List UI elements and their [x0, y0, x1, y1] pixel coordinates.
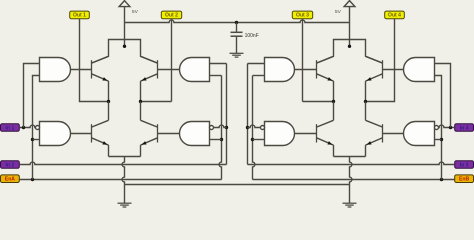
junction EnB outer branch [440, 178, 443, 181]
svg-text:5V: 5V [132, 9, 139, 15]
svg-text:Out 1: Out 1 [73, 13, 86, 19]
junction node Out3 [332, 100, 335, 103]
wire Out 1 to node [80, 19, 109, 102]
transistor Q8 (right bridge, low side B) [366, 120, 383, 145]
tag In 4 [455, 124, 474, 132]
wire right bridge ground drop [350, 157, 352, 204]
wire EnA to U2 lower input [33, 139, 40, 141]
wire Q3 emitter to emitter bus [108, 145, 110, 156]
tag Out 1 [70, 11, 90, 19]
transistor Q3 (left bridge, low side A) [92, 120, 109, 145]
wire 5V lead down to collector bar junction (right) [349, 7, 351, 47]
transistor Q2 (left bridge, high side B) [141, 56, 158, 81]
svg-text:Out 2: Out 2 [165, 13, 178, 19]
AND gate U4 (/In2*EnA, inverted input) [180, 122, 214, 146]
label 100nF [245, 33, 259, 39]
wire U6 output to Q8 base [383, 133, 404, 135]
wire left bridge ground drop [122, 157, 124, 204]
wire Out 3 vertical [302, 19, 304, 102]
power supply arrow +5V (right) [344, 1, 355, 7]
transistor Q1 (left bridge, high side A) [92, 56, 109, 81]
wire In 4 to U6 inverted input [439, 125, 455, 127]
junction In1 branch [22, 126, 25, 129]
wire Q4 collector to node Out2 [140, 102, 142, 121]
wire Q3 collector to node Out1 [108, 102, 110, 121]
AND gate U2 (/In1*EnA, inverted input) [36, 122, 71, 146]
AND gate U1 (In1*EnA) [40, 58, 71, 82]
AND gate U5 (In4*EnB) [404, 58, 435, 82]
svg-text:100nF: 100nF [245, 33, 259, 39]
wire EnA to U4 lower input [210, 139, 222, 141]
tag Out 3 [292, 11, 312, 19]
junction EnA to U4 input [220, 138, 223, 141]
svg-text:5V: 5V [335, 9, 342, 15]
tag En A [1, 175, 20, 183]
wire U2 output to Q3 base [71, 133, 92, 135]
junction In2 to U4 inverted input [225, 126, 228, 129]
AND gate U3 (In2*EnA) [180, 58, 210, 82]
wire In 2 line to inner gates [19, 64, 226, 165]
wire capacitor bottom lead [236, 37, 238, 53]
wire Q2 emitter to node [140, 81, 142, 101]
junction EnB to U8 input [251, 138, 254, 141]
wire U8 bubble to In3 vertical [248, 125, 261, 127]
junction EnA to U2 input [31, 138, 34, 141]
wire Q8 emitter to emitter bus [365, 145, 367, 156]
svg-text:In 2: In 2 [6, 162, 15, 168]
wire V+ rail [125, 20, 350, 22]
tag In 1 [1, 124, 20, 132]
wire Out 4 to node [366, 19, 395, 102]
wire Q5 emitter to node [333, 81, 335, 101]
tag Out 2 [161, 11, 181, 19]
capacitor C1 100nF [231, 32, 243, 36]
wire Q1 emitter to node [108, 81, 110, 101]
wire Out 2 to node [141, 101, 172, 103]
wire Q7 collector to node Out3 [333, 102, 335, 121]
ground (capacitor) [230, 53, 244, 57]
wire U7 output to Q5 base [295, 69, 317, 71]
wire U1 output to Q1 base [71, 69, 92, 71]
wire Q8 collector to node Out4 [365, 102, 367, 121]
wire Q7 emitter to emitter bus [333, 145, 335, 156]
wire Q4 emitter to emitter bus [140, 145, 142, 156]
junction EnB to U6 input [440, 138, 443, 141]
wire In 1 to U2 inverted input [19, 125, 35, 127]
svg-text:EnA: EnA [5, 177, 16, 183]
wire EnB to U8 lower input [253, 139, 265, 141]
transistor Q6 (right bridge, high side B) [366, 56, 383, 81]
power supply arrow +5V (left) [119, 1, 130, 7]
wire In 1 branch up to U1 input [24, 64, 40, 128]
svg-text:In 3: In 3 [460, 162, 469, 168]
label 5V (left) [132, 9, 139, 15]
tag In 3 [455, 161, 474, 169]
wire EnA branch to U1/U2 inputs [33, 76, 40, 180]
wire emitter bus (right) [334, 156, 366, 158]
wire capacitor top lead [236, 23, 238, 32]
wire EnB branch to U5/U6 inputs [435, 76, 442, 180]
wire U8 output to Q7 base [295, 133, 317, 135]
junction dot capacitor to rail [235, 21, 238, 24]
wire In 4 branch up to U5 input [435, 64, 451, 128]
junction dot V+ to collector bar (left) [123, 45, 126, 48]
transistor Q5 (right bridge, high side A) [317, 56, 334, 81]
svg-text:Out 3: Out 3 [296, 13, 309, 19]
wire U4 bubble to In2 vertical [214, 125, 227, 127]
transistor Q4 (left bridge, low side B) [141, 120, 158, 145]
junction In4 branch [449, 126, 452, 129]
label 5V (right) [335, 9, 342, 15]
wire ground bus between bridges [125, 184, 350, 186]
wire emitter bus (left) [109, 156, 141, 158]
tag En B [455, 175, 474, 183]
transistor Q7 (right bridge, low side A) [317, 120, 334, 145]
svg-text:In 1: In 1 [6, 125, 15, 131]
junction In3 to U8 inverted input [246, 126, 249, 129]
wire EnB to U6 lower input [435, 139, 442, 141]
AND gate U8 (/In3*EnB, inverted input) [261, 122, 295, 146]
wire En A line [19, 76, 221, 180]
junction EnA outer branch [31, 178, 34, 181]
wire En B line [253, 76, 455, 180]
junction node Out2 [139, 100, 142, 103]
wire Q6 emitter to node [365, 81, 367, 101]
wire Out 2 vertical [171, 19, 173, 102]
wire 5V lead down to collector bar junction (left) [124, 7, 126, 47]
AND gate U6 (/In4*EnB, inverted input) [404, 122, 439, 146]
junction dot V+ to collector bar (right) [348, 45, 351, 48]
wire collector bar of Q1/Q2 (left) [92, 40, 158, 64]
wire Out 3 to node [303, 101, 334, 103]
wire U5 output to Q6 base [383, 69, 404, 71]
wire U3 output to Q2 base [158, 69, 180, 71]
ground (left bridge) [118, 203, 132, 207]
wire In 3 line to inner gates [248, 64, 455, 165]
wire U4 output to Q4 base [158, 133, 180, 135]
junction node Out4 [364, 100, 367, 103]
svg-text:In 4: In 4 [460, 125, 469, 131]
tag In 2 [1, 161, 20, 169]
junction node Out1 [107, 100, 110, 103]
svg-text:Out 4: Out 4 [388, 13, 401, 19]
ground (right bridge) [343, 203, 357, 207]
wire collector bar of Q5/Q6 (right) [317, 40, 383, 64]
svg-text:EnB: EnB [459, 177, 470, 183]
AND gate U7 (In3*EnB) [265, 58, 295, 82]
tag Out 4 [385, 11, 405, 19]
